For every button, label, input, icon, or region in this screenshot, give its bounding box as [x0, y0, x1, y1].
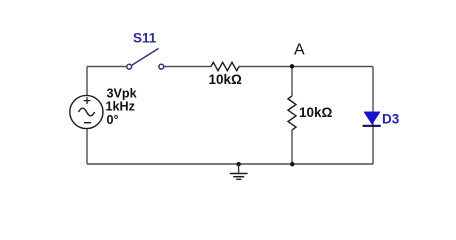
resistor R2 (vertical 10k): [288, 96, 296, 130]
AC source minus sign: [84, 122, 91, 124]
AC source sine wave: [79, 108, 95, 116]
diode D3 cathode bar: [363, 125, 381, 127]
ground junction dot: [236, 162, 240, 166]
svg-text:3Vpk: 3Vpk: [107, 87, 138, 101]
wire: left vertical below source: [86, 129, 88, 164]
svg-text:S11: S11: [133, 31, 157, 46]
AC source V1 circle: [70, 95, 103, 128]
junction dot: resistor branch at bottom rail: [290, 162, 294, 166]
svg-text:1kHz: 1kHz: [106, 100, 135, 114]
svg-text:D3: D3: [382, 112, 400, 127]
wire: right vertical through diode: [372, 67, 374, 165]
ground bar 2: [233, 176, 244, 178]
ground bar 1: [230, 173, 248, 175]
ground stub wire: [238, 164, 240, 173]
wire: top rail from corner to switch: [87, 66, 127, 68]
svg-text:0°: 0°: [107, 113, 119, 127]
node A junction dot: [290, 64, 294, 68]
svg-text:10kΩ: 10kΩ: [209, 72, 243, 87]
wire: resistor R1 to top-right corner: [239, 66, 373, 68]
AC source plus sign: [84, 97, 91, 104]
svg-text:10kΩ: 10kΩ: [299, 105, 333, 120]
wire: middle resistor branch bottom lead: [291, 130, 293, 164]
wire: middle resistor branch top lead: [291, 67, 293, 97]
diode D3 triangle: [364, 112, 380, 125]
svg-text:A: A: [294, 42, 305, 59]
ground bar 3: [236, 178, 241, 180]
switch S11: [127, 48, 164, 69]
resistor R1 (horizontal 10k): [211, 62, 239, 70]
wire: bottom rail: [87, 163, 373, 165]
wire: top-left vertical (source to top rail): [86, 67, 88, 96]
wire: switch to resistor R1: [164, 66, 211, 68]
